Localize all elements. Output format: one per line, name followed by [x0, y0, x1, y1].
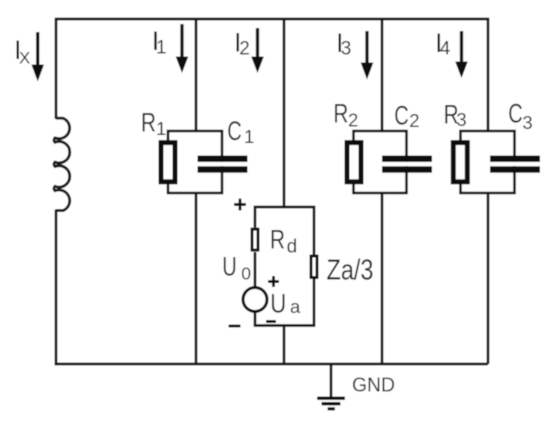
- wire branch2 lower: [283, 326, 286, 365]
- current arrow I1: [176, 24, 189, 73]
- label I3: [336, 28, 351, 60]
- svg-text:C: C: [394, 100, 409, 130]
- plus sign U0: [234, 199, 246, 211]
- wire branch2 upper: [283, 19, 286, 207]
- label C1: [227, 116, 254, 147]
- node box R3C3: [461, 131, 515, 193]
- svg-text:1: 1: [156, 118, 166, 139]
- current arrow I2: [251, 28, 264, 73]
- label C3: [508, 99, 532, 134]
- capacitor C2: [382, 156, 432, 173]
- wire branch3 lower: [381, 193, 384, 364]
- label R1: [141, 108, 166, 139]
- svg-text:U: U: [270, 288, 286, 318]
- svg-text:1: 1: [156, 38, 167, 59]
- impedance Za/3: [311, 256, 317, 278]
- wire bottom: [55, 363, 488, 366]
- label I1: [152, 26, 167, 59]
- svg-text:4: 4: [440, 39, 451, 60]
- svg-text:X: X: [19, 49, 30, 68]
- wire right lower: [487, 193, 490, 364]
- svg-text:R: R: [141, 108, 156, 138]
- inductor L: [54, 118, 70, 210]
- resistor Rd: [252, 229, 258, 250]
- wire branch1 lower: [195, 193, 198, 364]
- node box R2C2: [354, 131, 407, 193]
- label IX: [14, 35, 30, 68]
- minus sign U0: [229, 325, 241, 328]
- node box R1C1: [168, 131, 222, 193]
- svg-text:3: 3: [341, 39, 352, 60]
- svg-text:C: C: [227, 116, 242, 146]
- svg-text:a: a: [290, 296, 301, 317]
- svg-text:3: 3: [456, 109, 466, 130]
- ground: [317, 364, 345, 411]
- svg-text:R: R: [333, 99, 348, 129]
- wire branch1 upper: [195, 19, 198, 131]
- wire branch3 upper: [381, 19, 384, 131]
- resistor R1: [161, 143, 175, 182]
- current arrow I3: [361, 31, 374, 80]
- svg-text:0: 0: [241, 264, 251, 284]
- label C2: [394, 100, 419, 131]
- svg-text:3: 3: [522, 112, 532, 133]
- svg-text:C: C: [508, 99, 523, 129]
- label U0: [222, 252, 251, 284]
- label I4: [435, 28, 451, 60]
- minus sign Ua: [266, 320, 276, 323]
- svg-text:2: 2: [239, 39, 250, 60]
- svg-text:2: 2: [409, 110, 419, 131]
- label R3: [444, 99, 467, 129]
- capacitor C3: [490, 156, 540, 173]
- plus sign Ua: [268, 276, 279, 287]
- resistor R2: [347, 143, 361, 182]
- wire top: [56, 18, 488, 21]
- middle network box: [255, 207, 314, 326]
- wire right upper: [487, 18, 490, 131]
- current arrow I4: [455, 31, 468, 78]
- voltage source Ua circle: [243, 288, 267, 312]
- svg-text:d: d: [287, 237, 298, 258]
- svg-text:GND: GND: [352, 374, 395, 397]
- svg-text:R: R: [270, 225, 285, 255]
- current arrow IX: [31, 32, 44, 82]
- svg-text:2: 2: [348, 109, 358, 130]
- svg-text:U: U: [222, 252, 237, 282]
- resistor R3: [453, 143, 467, 182]
- wire left upper: [55, 18, 58, 119]
- svg-text:Za/3: Za/3: [327, 254, 374, 286]
- capacitor C1: [198, 156, 248, 173]
- svg-text:1: 1: [244, 126, 254, 147]
- wire left lower: [55, 210, 58, 366]
- label Rd: [270, 225, 297, 258]
- label R2: [333, 99, 358, 131]
- label I2: [234, 27, 250, 59]
- label Ua: [270, 288, 301, 318]
